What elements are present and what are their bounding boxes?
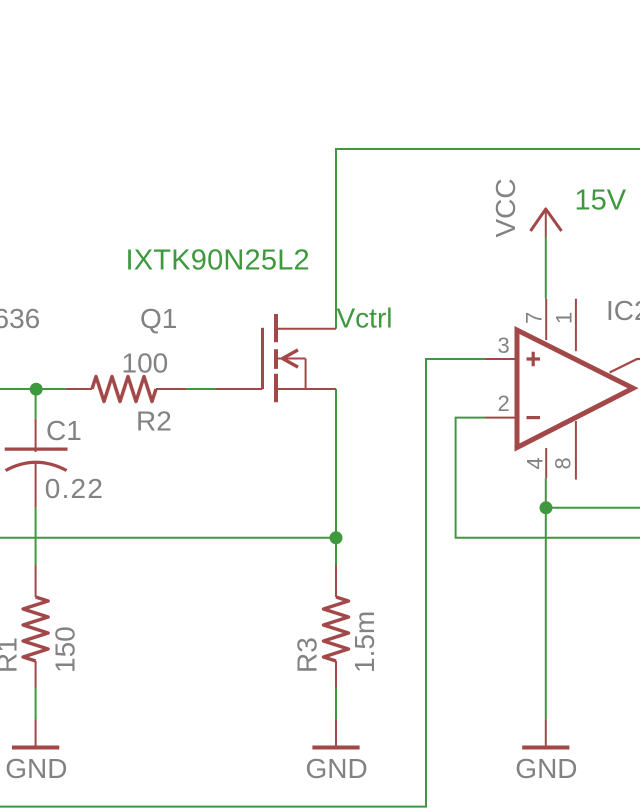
svg-text:VCC: VCC <box>490 178 521 237</box>
svg-text:IXTK90N25L2: IXTK90N25L2 <box>126 245 310 277</box>
svg-text:3: 3 <box>498 333 510 358</box>
svg-text:2: 2 <box>498 391 510 416</box>
svg-text:8: 8 <box>551 457 576 469</box>
svg-text:Vctrl: Vctrl <box>337 303 393 334</box>
svg-text:GND: GND <box>306 753 368 784</box>
svg-text:C1: C1 <box>46 415 82 446</box>
svg-text:R2: R2 <box>136 405 172 436</box>
svg-text:GND: GND <box>515 753 577 784</box>
svg-text:IC2: IC2 <box>606 295 640 326</box>
svg-text:1.5m: 1.5m <box>349 611 380 673</box>
svg-text:1: 1 <box>551 312 576 324</box>
svg-text:100: 100 <box>122 347 169 378</box>
svg-text:Q1: Q1 <box>140 303 177 334</box>
svg-text:15V: 15V <box>575 184 627 216</box>
svg-text:R3: R3 <box>292 637 323 673</box>
svg-text:0.22: 0.22 <box>45 473 104 504</box>
svg-text:4: 4 <box>523 457 548 469</box>
svg-text:R1: R1 <box>0 637 23 673</box>
svg-text:7: 7 <box>522 312 547 324</box>
svg-text:150: 150 <box>50 626 81 673</box>
svg-text:GND: GND <box>5 753 67 784</box>
svg-text:636: 636 <box>0 303 40 334</box>
